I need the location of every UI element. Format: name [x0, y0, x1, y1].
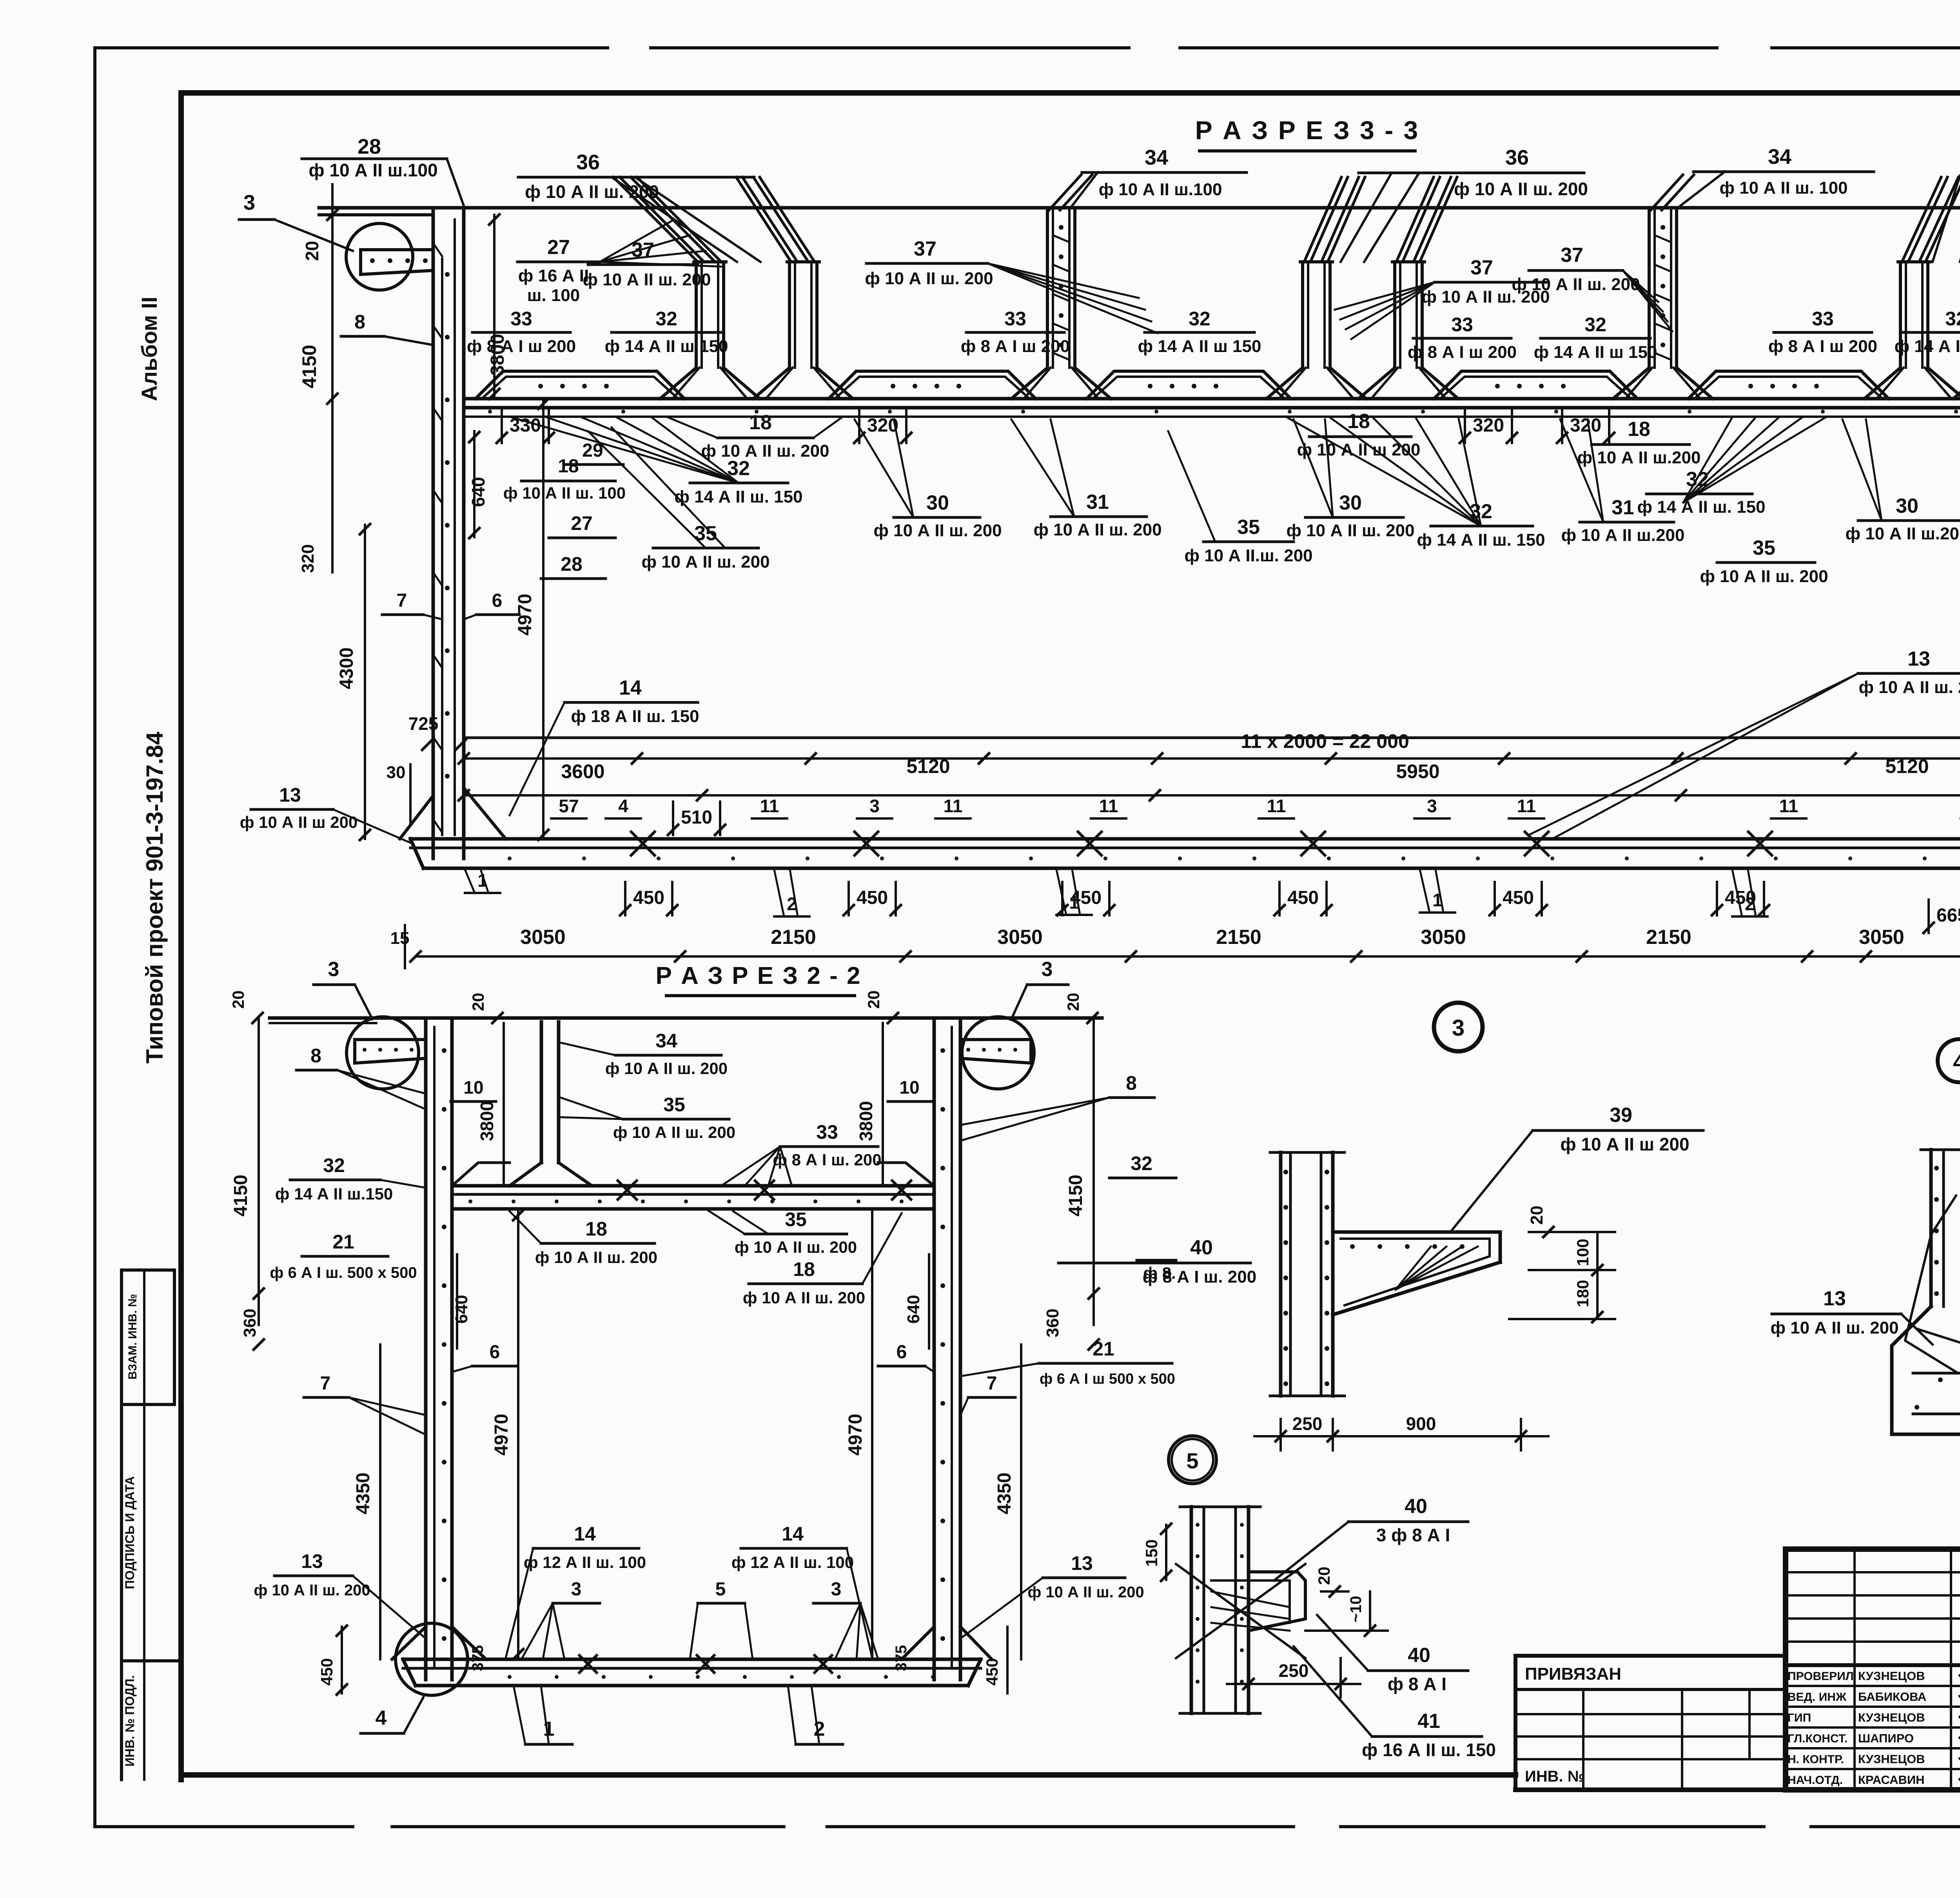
svg-text:3 ф 8 А I: 3 ф 8 А I — [1376, 1525, 1450, 1545]
svg-text:ф 10 А II ш. 100: ф 10 А II ш. 100 — [503, 484, 626, 502]
svg-text:ф 10 А II ш. 200: ф 10 А II ш. 200 — [1512, 275, 1640, 294]
detail 5 bubble — [1169, 1436, 1216, 1484]
svg-text:4: 4 — [618, 796, 628, 816]
svg-text:4970: 4970 — [845, 1414, 866, 1456]
dim 320 c — [1561, 410, 1563, 443]
svg-text:ф 16 А II: ф 16 А II — [518, 266, 589, 285]
svg-text:БАБИКОВА: БАБИКОВА — [1858, 1690, 1926, 1704]
svg-text:5950: 5950 — [1396, 760, 1439, 782]
dim 320 box a — [858, 410, 860, 443]
svg-text:450: 450 — [1725, 887, 1756, 908]
svg-text:40: 40 — [1405, 1495, 1427, 1518]
svg-text:4150: 4150 — [1065, 1175, 1086, 1217]
detail 5 dim 250 — [1247, 1658, 1250, 1697]
svg-text:ф 10 А II ш 200: ф 10 А II ш 200 — [1297, 440, 1421, 459]
svg-text:ф 8 А I ш 200: ф 8 А I ш 200 — [961, 337, 1070, 356]
signature table — [1786, 1663, 1960, 1667]
svg-text:37: 37 — [1470, 256, 1493, 279]
svg-text:ф 14 А II ш. 150: ф 14 А II ш. 150 — [674, 487, 802, 506]
svg-text:3800: 3800 — [487, 334, 508, 376]
svg-text:34: 34 — [655, 1030, 677, 1052]
svg-text:2150: 2150 — [1646, 926, 1691, 949]
svg-text:18: 18 — [1628, 418, 1650, 441]
svg-text:ф 12 А II ш. 100: ф 12 А II ш. 100 — [731, 1553, 854, 1571]
pillar pair 3 — [1899, 262, 1902, 368]
svg-text:ф 10 А II ш.100: ф 10 А II ш.100 — [309, 160, 437, 180]
svg-text:450: 450 — [633, 887, 664, 908]
svg-text:31: 31 — [1086, 491, 1109, 514]
svg-text:ф 10 А II ш. 200: ф 10 А II ш. 200 — [254, 1582, 370, 1599]
bottom main dim row — [416, 955, 1960, 958]
svg-text:3600: 3600 — [561, 760, 604, 782]
svg-text:100: 100 — [1573, 1239, 1592, 1266]
dim 330 box — [501, 410, 503, 443]
svg-text:41: 41 — [1417, 1710, 1440, 1733]
upper dim row 3600-5120 — [464, 794, 1960, 797]
privyazan table — [1515, 1656, 1786, 1790]
svg-text:ф 14 А II ш 150: ф 14 А II ш 150 — [1534, 343, 1657, 362]
svg-text:320: 320 — [867, 415, 898, 436]
svg-text:ф 10 А II ш. 200: ф 10 А II ш. 200 — [1700, 567, 1828, 586]
svg-text:37: 37 — [632, 239, 654, 261]
2-2 wall base flares — [392, 1627, 426, 1659]
svg-text:30: 30 — [926, 492, 949, 514]
svg-text:450: 450 — [1503, 887, 1534, 908]
detail 4 wall — [1929, 1150, 1933, 1306]
svg-text:35: 35 — [1753, 537, 1775, 559]
svg-text:ф 10 А II ш. 200: ф 10 А II ш. 200 — [535, 1248, 657, 1267]
svg-text:14: 14 — [782, 1523, 804, 1545]
svg-text:КРАСАВИН: КРАСАВИН — [1858, 1773, 1925, 1787]
detail 3 bubble — [1434, 1003, 1483, 1051]
svg-text:3800: 3800 — [856, 1101, 876, 1141]
svg-text:7: 7 — [320, 1373, 331, 1394]
svg-text:13: 13 — [279, 784, 301, 806]
svg-text:250: 250 — [1292, 1414, 1323, 1434]
svg-text:13: 13 — [1823, 1287, 1846, 1310]
svg-text:ф 10 А II ш. 200: ф 10 А II ш. 200 — [865, 269, 993, 288]
sheet outer border — [95, 46, 608, 49]
svg-text:6: 6 — [492, 590, 503, 611]
svg-text:ф 14 А II ш 150: ф 14 А II ш 150 — [605, 337, 728, 356]
svg-text:Р А З Р Е З 3 - 3: Р А З Р Е З 3 - 3 — [1195, 116, 1420, 145]
svg-text:ф 10 А II ш. 200: ф 10 А II ш. 200 — [1286, 521, 1414, 540]
svg-text:360: 360 — [1043, 1308, 1062, 1337]
section 3-3 bottom slab — [410, 837, 1960, 841]
section 2-2 left wall — [424, 1018, 428, 1680]
svg-text:640: 640 — [904, 1295, 923, 1323]
svg-text:37: 37 — [914, 238, 936, 260]
svg-text:900: 900 — [1406, 1414, 1436, 1434]
svg-text:20: 20 — [1064, 993, 1082, 1011]
svg-text:ф 10 А II ш. 200: ф 10 А II ш. 200 — [1858, 678, 1960, 697]
pillar pair 1 — [695, 262, 698, 368]
svg-text:ф 10 А II.ш. 200: ф 10 А II.ш. 200 — [1184, 546, 1312, 565]
svg-text:ф 8 А I ш 200: ф 8 А I ш 200 — [467, 337, 576, 356]
dim 510 boxes — [672, 802, 674, 835]
svg-text:11: 11 — [1099, 796, 1118, 816]
svg-text:20: 20 — [1527, 1206, 1546, 1225]
svg-text:32: 32 — [1945, 308, 1960, 330]
svg-text:ф 14 А II ш. 150: ф 14 А II ш. 150 — [1417, 530, 1545, 550]
svg-text:8: 8 — [1126, 1072, 1137, 1094]
svg-text:ГИП: ГИП — [1788, 1711, 1811, 1724]
svg-text:Р А З Р Е З 2 - 2: Р А З Р Е З 2 - 2 — [656, 962, 862, 989]
tall column 1 — [1046, 208, 1049, 368]
svg-text:180: 180 — [1573, 1280, 1592, 1307]
svg-text:510: 510 — [681, 807, 712, 828]
svg-text:32: 32 — [1131, 1152, 1152, 1174]
svg-text:11: 11 — [760, 796, 779, 816]
svg-text:ф 10 А II ш. 200: ф 10 А II ш. 200 — [605, 1059, 728, 1078]
svg-text:640: 640 — [452, 1295, 471, 1323]
svg-text:320: 320 — [1473, 415, 1504, 436]
svg-text:3: 3 — [831, 1579, 842, 1600]
detail 3 cantilever — [1333, 1230, 1500, 1234]
svg-text:20: 20 — [229, 991, 247, 1009]
svg-text:ф 10 А II ш.100: ф 10 А II ш.100 — [1099, 180, 1222, 199]
svg-text:4150: 4150 — [230, 1175, 251, 1217]
svg-text:20: 20 — [469, 993, 487, 1011]
svg-text:6: 6 — [897, 1342, 907, 1363]
svg-text:14: 14 — [619, 677, 642, 699]
svg-text:4: 4 — [1953, 1049, 1960, 1074]
svg-text:Н. КОНТР.: Н. КОНТР. — [1788, 1753, 1844, 1766]
tall column 2 — [1648, 208, 1651, 368]
svg-text:3: 3 — [869, 796, 880, 816]
svg-text:КУЗНЕЦОВ: КУЗНЕЦОВ — [1858, 1669, 1925, 1683]
svg-text:ф 10 А II ш. 200: ф 10 А II ш. 200 — [735, 1238, 857, 1256]
svg-text:375: 375 — [893, 1645, 910, 1671]
svg-text:3800: 3800 — [477, 1101, 497, 1141]
svg-text:37: 37 — [1561, 244, 1583, 267]
svg-text:250: 250 — [1279, 1660, 1309, 1681]
2-2 top corbels + detail circles — [355, 1038, 426, 1041]
section 3-3 top slab line — [319, 206, 1960, 210]
svg-text:32: 32 — [1584, 314, 1606, 336]
svg-text:33: 33 — [1812, 308, 1834, 330]
svg-text:34: 34 — [1768, 145, 1791, 169]
svg-text:11: 11 — [1779, 796, 1798, 816]
svg-text:375: 375 — [469, 1645, 486, 1671]
svg-text:450: 450 — [318, 1658, 336, 1686]
svg-text:665: 665 — [1936, 905, 1960, 926]
svg-text:11 х 2000 = 22 000: 11 х 2000 = 22 000 — [1241, 730, 1409, 752]
svg-text:33: 33 — [1451, 314, 1473, 336]
svg-text:3050: 3050 — [997, 926, 1043, 949]
svg-text:36: 36 — [1505, 146, 1529, 169]
svg-text:ф 10 А II ш. 200: ф 10 А II ш. 200 — [613, 1123, 735, 1141]
svg-text:450: 450 — [857, 887, 888, 908]
detail circle 4 on 2-2 — [396, 1623, 468, 1695]
svg-text:30: 30 — [1896, 495, 1918, 517]
svg-text:ф 8 А I ш 200: ф 8 А I ш 200 — [1768, 337, 1877, 356]
section 2-2 right wall — [933, 1018, 936, 1680]
svg-text:20: 20 — [302, 241, 322, 261]
svg-text:18: 18 — [558, 456, 579, 477]
svg-text:7: 7 — [987, 1373, 997, 1394]
svg-text:ф 16 А II ш. 150: ф 16 А II ш. 150 — [1362, 1740, 1496, 1760]
svg-text:320: 320 — [1570, 415, 1601, 436]
detail 3 bottom dims — [1279, 1419, 1282, 1450]
svg-text:ИНВ. №: ИНВ. № — [1525, 1768, 1585, 1785]
svg-text:4970: 4970 — [515, 594, 535, 636]
svg-text:34: 34 — [1145, 146, 1168, 169]
svg-text:ф 10 А II ш. 200: ф 10 А II ш. 200 — [873, 521, 1002, 540]
svg-text:725: 725 — [408, 713, 439, 734]
svg-text:ф 10 А II ш. 100: ф 10 А II ш. 100 — [1719, 178, 1847, 198]
svg-text:КУЗНЕЦОВ: КУЗНЕЦОВ — [1858, 1711, 1925, 1724]
svg-text:2150: 2150 — [771, 926, 816, 949]
svg-text:150: 150 — [1142, 1539, 1161, 1567]
svg-text:13: 13 — [1907, 648, 1930, 670]
section 2-2 top line — [270, 1016, 1102, 1020]
svg-text:20: 20 — [864, 991, 883, 1009]
section 2-2 floor slab — [452, 1184, 934, 1188]
svg-text:450: 450 — [1287, 887, 1319, 908]
svg-text:35: 35 — [785, 1208, 807, 1230]
svg-text:3: 3 — [571, 1579, 582, 1600]
svg-text:31: 31 — [1612, 496, 1634, 519]
2-2 bottom slab — [403, 1658, 981, 1661]
svg-text:14: 14 — [574, 1523, 596, 1545]
left margin stamp boxes — [122, 1268, 174, 1272]
section 2-2 middle partition — [540, 1022, 543, 1163]
svg-text:ф 12 А II ш. 100: ф 12 А II ш. 100 — [524, 1553, 646, 1571]
svg-text:32: 32 — [1189, 308, 1210, 330]
bottom slab X splices — [631, 832, 655, 855]
svg-text:ГЛ.КОНСТ.: ГЛ.КОНСТ. — [1788, 1732, 1847, 1745]
detail circle 3 on wall — [346, 223, 413, 290]
detail 4 bubble — [1938, 1039, 1960, 1082]
svg-text:3: 3 — [328, 958, 339, 981]
svg-text:18: 18 — [749, 411, 772, 434]
svg-text:5120: 5120 — [906, 755, 950, 777]
svg-text:27: 27 — [571, 512, 593, 534]
svg-text:33: 33 — [1004, 308, 1026, 330]
svg-text:ф 14 А II ш 150: ф 14 А II ш 150 — [1895, 337, 1960, 356]
section 3-3 left wall — [432, 208, 435, 858]
svg-text:18: 18 — [1347, 410, 1370, 433]
svg-text:320: 320 — [298, 544, 318, 573]
svg-text:36: 36 — [576, 151, 600, 174]
svg-text:ф 14 А II ш.150: ф 14 А II ш.150 — [275, 1185, 393, 1203]
svg-text:ф 6 А I ш 500 х 500: ф 6 А I ш 500 х 500 — [1040, 1371, 1175, 1387]
svg-text:ф 10 А II ш. 200: ф 10 А II ш. 200 — [525, 181, 659, 202]
svg-text:Альбом II: Альбом II — [137, 297, 162, 401]
left wall top corbel (detail 3) — [361, 248, 433, 251]
svg-text:ВЕД. ИНЖ: ВЕД. ИНЖ — [1788, 1691, 1847, 1704]
dim 320 b — [1464, 410, 1466, 443]
svg-text:30: 30 — [387, 763, 406, 782]
svg-text:3050: 3050 — [1421, 926, 1466, 949]
svg-text:33: 33 — [816, 1121, 838, 1143]
svg-text:13: 13 — [301, 1550, 323, 1572]
svg-text:40: 40 — [1408, 1644, 1430, 1667]
svg-text:4350: 4350 — [994, 1473, 1015, 1515]
svg-text:5120: 5120 — [1885, 755, 1929, 777]
svg-text:ф 10 А II ш.200: ф 10 А II ш.200 — [1846, 524, 1960, 543]
detail 5 wall — [1190, 1507, 1193, 1713]
svg-text:ВЗАМ. ИНВ. №: ВЗАМ. ИНВ. № — [126, 1294, 139, 1379]
svg-text:360: 360 — [240, 1308, 260, 1337]
svg-text:28: 28 — [358, 135, 381, 158]
svg-text:ф 14 А II ш. 150: ф 14 А II ш. 150 — [1637, 497, 1765, 517]
svg-text:39: 39 — [1610, 1104, 1632, 1127]
svg-text:4300: 4300 — [336, 648, 357, 690]
svg-text:10: 10 — [899, 1077, 919, 1098]
svg-text:640: 640 — [468, 477, 488, 507]
svg-text:ф 10 А II ш.200: ф 10 А II ш.200 — [1577, 448, 1701, 467]
svg-text:ф 10 А II ш. 200: ф 10 А II ш. 200 — [701, 441, 829, 461]
svg-text:15: 15 — [390, 929, 410, 948]
title block outer box — [1786, 1549, 1960, 1790]
svg-text:ф 8 А I ш 200: ф 8 А I ш 200 — [1408, 343, 1517, 362]
svg-text:3: 3 — [243, 191, 255, 214]
svg-text:18: 18 — [585, 1218, 607, 1240]
svg-text:ШАПИРО: ШАПИРО — [1858, 1731, 1914, 1745]
svg-text:3: 3 — [1427, 796, 1437, 816]
svg-text:30: 30 — [1339, 492, 1362, 514]
svg-text:450: 450 — [1070, 887, 1102, 908]
svg-text:18: 18 — [793, 1258, 815, 1280]
svg-text:4350: 4350 — [353, 1473, 374, 1515]
svg-text:3: 3 — [1452, 1015, 1465, 1041]
svg-text:ПОДПИСЬ И ДАТА: ПОДПИСЬ И ДАТА — [123, 1476, 137, 1589]
svg-text:ИНВ. № ПОДЛ.: ИНВ. № ПОДЛ. — [123, 1675, 137, 1766]
inner drawing frame — [181, 90, 1960, 96]
svg-text:Типовой проект 901-3-197.84: Типовой проект 901-3-197.84 — [142, 731, 168, 1063]
svg-text:4970: 4970 — [491, 1414, 512, 1456]
svg-text:32: 32 — [323, 1154, 345, 1176]
svg-text:450: 450 — [983, 1658, 1001, 1686]
svg-text:ф 10 А II ш. 200: ф 10 А II ш. 200 — [743, 1288, 865, 1307]
svg-text:ф 10 А II ш. 200: ф 10 А II ш. 200 — [1027, 1584, 1144, 1601]
svg-text:10: 10 — [463, 1077, 483, 1098]
svg-text:4150: 4150 — [298, 345, 320, 388]
svg-text:НАЧ.ОТД.: НАЧ.ОТД. — [1788, 1774, 1843, 1787]
svg-text:57: 57 — [559, 796, 579, 816]
svg-text:ф 8 А I ш. 200: ф 8 А I ш. 200 — [773, 1150, 881, 1169]
svg-text:ф 10 А II ш 200: ф 10 А II ш 200 — [240, 813, 358, 831]
svg-text:ф 10 А II ш. 200: ф 10 А II ш. 200 — [1770, 1318, 1898, 1337]
svg-text:27: 27 — [547, 236, 570, 259]
svg-text:ф 10 А II ш. 200: ф 10 А II ш. 200 — [641, 552, 769, 572]
svg-text:3: 3 — [1042, 958, 1053, 981]
svg-text:3050: 3050 — [520, 926, 566, 949]
svg-text:ф 8 А I ш. 200: ф 8 А I ш. 200 — [1143, 1267, 1256, 1287]
detail 5 corbel — [1249, 1572, 1305, 1631]
wall base flares — [464, 788, 506, 839]
svg-text:33: 33 — [510, 308, 532, 330]
svg-text:ф 10 А II ш. 200: ф 10 А II ш. 200 — [1033, 520, 1161, 539]
svg-text:~10: ~10 — [1347, 1596, 1365, 1622]
svg-text:4: 4 — [376, 1707, 387, 1729]
svg-text:ф 10 А II ш 200: ф 10 А II ш 200 — [1560, 1134, 1689, 1154]
svg-text:ш. 100: ш. 100 — [527, 286, 580, 305]
svg-text:11: 11 — [1517, 796, 1536, 816]
detail 3 wall — [1279, 1152, 1283, 1396]
svg-text:32: 32 — [655, 308, 677, 330]
svg-text:2150: 2150 — [1216, 926, 1261, 949]
dim row 450 boxes — [624, 882, 626, 915]
svg-text:ф 10 А II ш. 200: ф 10 А II ш. 200 — [583, 270, 711, 289]
svg-text:ф 14 А II ш 150: ф 14 А II ш 150 — [1138, 337, 1261, 356]
floor long bar line — [464, 737, 1960, 739]
svg-text:40: 40 — [1190, 1236, 1213, 1259]
svg-text:ф 8 А I: ф 8 А I — [1388, 1674, 1446, 1694]
pillar pair 2 — [1301, 262, 1304, 368]
svg-text:ф 6 А I ш. 500 х 500: ф 6 А I ш. 500 х 500 — [270, 1264, 417, 1281]
detail 4 base — [1892, 1306, 1960, 1434]
svg-text:11: 11 — [1267, 796, 1286, 816]
detail 4 crossing bars — [1905, 1196, 1956, 1372]
svg-text:5: 5 — [1186, 1448, 1198, 1473]
svg-text:6: 6 — [490, 1342, 500, 1363]
svg-text:13: 13 — [1071, 1552, 1093, 1574]
svg-text:3050: 3050 — [1859, 926, 1904, 949]
svg-text:11: 11 — [944, 796, 963, 816]
svg-text:8: 8 — [354, 311, 365, 333]
svg-text:8: 8 — [310, 1045, 321, 1067]
svg-text:КУЗНЕЦОВ: КУЗНЕЦОВ — [1858, 1752, 1925, 1766]
svg-text:ф 18 А II ш. 150: ф 18 А II ш. 150 — [571, 707, 699, 726]
svg-text:35: 35 — [663, 1094, 685, 1116]
svg-text:ПРОВЕРИЛ: ПРОВЕРИЛ — [1788, 1670, 1854, 1683]
svg-text:ф 10 А II ш. 200: ф 10 А II ш. 200 — [1454, 179, 1588, 199]
svg-text:21: 21 — [332, 1231, 354, 1253]
svg-text:20: 20 — [1315, 1567, 1333, 1585]
svg-text:7: 7 — [397, 590, 407, 611]
svg-text:5: 5 — [715, 1579, 726, 1600]
svg-text:ф 10 А II ш.200: ф 10 А II ш.200 — [1561, 526, 1685, 545]
svg-text:28: 28 — [561, 553, 583, 575]
svg-text:35: 35 — [1237, 516, 1260, 539]
ribbed top slab of tank — [464, 397, 1960, 401]
svg-text:ПРИВЯЗАН: ПРИВЯЗАН — [1525, 1664, 1621, 1684]
